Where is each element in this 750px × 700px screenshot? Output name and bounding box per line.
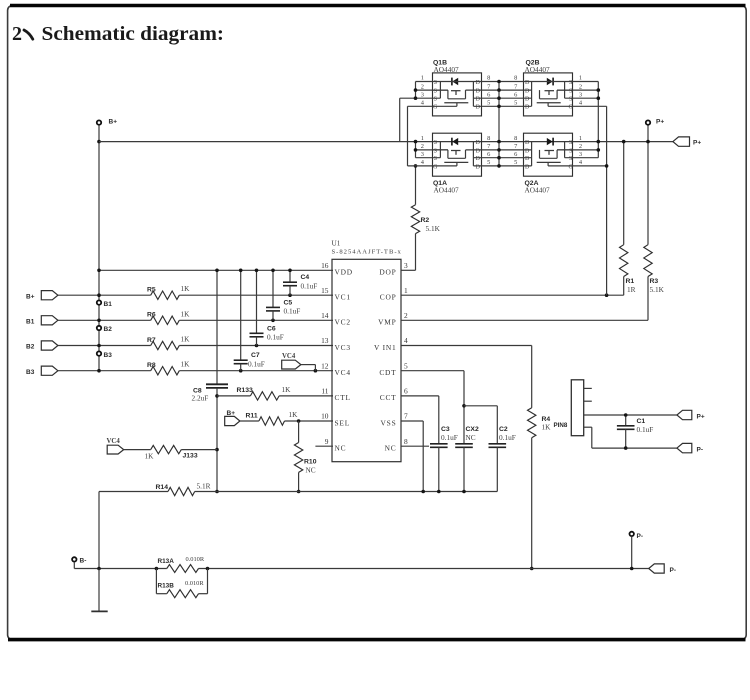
svg-text:S: S [569, 80, 572, 86]
svg-text:0.1uF: 0.1uF [267, 333, 284, 342]
svg-text:S: S [434, 89, 437, 95]
connector flag VC4 left [107, 445, 124, 454]
svg-text:D: D [525, 156, 530, 162]
resistor R13A 0.010R [155, 567, 159, 571]
svg-text:8: 8 [487, 135, 490, 142]
svg-text:P-: P- [697, 446, 704, 453]
wire gate vertical left Q1 [407, 106, 409, 166]
wire PIN8 to P+ flag [584, 414, 677, 416]
svg-text:D: D [476, 89, 481, 95]
connector flag P- bottom [649, 564, 665, 573]
wire P- node drop [631, 536, 633, 568]
capacitor C4 0.1uF [289, 270, 291, 282]
svg-text:R7: R7 [147, 337, 156, 344]
svg-text:R13B: R13B [158, 582, 175, 589]
svg-text:D: D [476, 97, 481, 103]
svg-text:R133: R133 [237, 387, 253, 394]
transistor Q1A AO4407 package [433, 133, 482, 176]
svg-text:D: D [525, 80, 530, 86]
transistor Q2A AO4407 package [524, 133, 573, 176]
svg-text:5.1K: 5.1K [426, 224, 441, 233]
connector flag B3 [41, 366, 58, 375]
node P- bottom [630, 532, 634, 536]
wire left drop to B- row [98, 492, 100, 569]
svg-text:B-: B- [80, 558, 87, 565]
svg-text:11: 11 [321, 387, 328, 396]
capacitor C2 0.1uF [464, 405, 497, 407]
svg-text:B+: B+ [26, 293, 35, 300]
U1 pin 9 NC stub [315, 445, 333, 447]
svg-text:R11: R11 [246, 412, 258, 419]
svg-text:0.1uF: 0.1uF [248, 359, 265, 368]
svg-text:G: G [569, 164, 574, 170]
wire row3 segments top [400, 97, 441, 99]
svg-text:J133: J133 [183, 452, 198, 459]
svg-text:5: 5 [514, 159, 517, 166]
svg-text:VC4: VC4 [107, 438, 121, 445]
svg-text:DOP: DOP [379, 268, 396, 277]
svg-text:S: S [434, 148, 437, 154]
svg-text:B3: B3 [104, 352, 113, 359]
svg-text:1K: 1K [282, 385, 292, 394]
svg-text:3: 3 [421, 151, 424, 158]
svg-text:P-: P- [637, 533, 644, 540]
connector flag B2 [41, 341, 58, 350]
resistor J133 1K row [124, 449, 151, 451]
svg-text:S: S [434, 156, 437, 162]
svg-text:SEL: SEL [335, 418, 351, 427]
svg-text:1K: 1K [181, 360, 191, 369]
resistor R7 1K [58, 345, 151, 347]
svg-text:D: D [525, 164, 530, 170]
resistor R14 5.1R row [99, 491, 168, 493]
wire row3 segments bottom [416, 157, 441, 159]
junction bus-rail [97, 140, 101, 144]
svg-text:B+: B+ [227, 410, 236, 417]
svg-text:P+: P+ [697, 413, 705, 420]
wire B- elbow [73, 562, 75, 569]
svg-text:VC3: VC3 [335, 343, 351, 352]
svg-text:B2: B2 [26, 344, 35, 351]
svg-text:12: 12 [321, 361, 329, 370]
svg-text:1: 1 [421, 75, 424, 82]
node B+ top [97, 120, 101, 124]
svg-text:CCT: CCT [380, 393, 397, 402]
wire right S-tie Q2 [597, 82, 599, 158]
connector flag P+ top right [673, 137, 690, 146]
svg-text:5.1K: 5.1K [650, 285, 665, 294]
IC U1 S-8254AAJFT-TB-x [332, 259, 401, 461]
svg-text:5: 5 [404, 361, 408, 370]
svg-text:C5: C5 [284, 299, 293, 306]
wire VSS pin7 drop [401, 420, 423, 422]
connector flag VC4 to pin 12 [282, 360, 301, 369]
svg-text:S: S [569, 156, 572, 162]
wire row4 gate rows top [408, 105, 457, 107]
svg-text:0.1uF: 0.1uF [499, 433, 516, 442]
svg-text:S: S [569, 97, 572, 103]
svg-text:2: 2 [579, 143, 582, 150]
svg-text:15: 15 [321, 286, 329, 295]
svg-text:B+: B+ [109, 119, 118, 126]
svg-text:S: S [569, 148, 572, 154]
svg-text:R8: R8 [147, 362, 156, 369]
svg-text:G: G [433, 164, 438, 170]
svg-text:10: 10 [321, 412, 329, 421]
svg-text:D: D [525, 148, 530, 154]
svg-text:R13A: R13A [158, 558, 175, 565]
svg-text:P-: P- [670, 567, 677, 574]
ground symbol [98, 569, 100, 612]
capacitor C8 2.2uF [216, 270, 218, 384]
resistor R133 1K pin11 row [217, 395, 250, 397]
wire gate vertical right Q2 [606, 106, 608, 295]
svg-text:2: 2 [404, 311, 408, 320]
svg-text:3: 3 [579, 151, 582, 158]
svg-text:1: 1 [579, 135, 582, 142]
wire jog to rail left [399, 98, 401, 141]
svg-text:S: S [569, 140, 572, 146]
svg-text:G: G [569, 105, 574, 111]
svg-text:8: 8 [514, 135, 517, 142]
svg-text:6: 6 [404, 387, 408, 396]
svg-text:VSS: VSS [381, 418, 397, 427]
resistor R2 5.1K [411, 205, 419, 234]
connector flag B+ [41, 291, 58, 300]
svg-text:C7: C7 [251, 352, 260, 359]
svg-text:D: D [476, 156, 481, 162]
drain bus center [498, 82, 500, 166]
svg-text:5: 5 [514, 100, 517, 107]
svg-text:R6: R6 [147, 312, 156, 319]
svg-text:0.1uF: 0.1uF [284, 307, 301, 316]
svg-text:6: 6 [514, 151, 517, 158]
svg-text:COP: COP [380, 293, 397, 302]
resistor R6 1K [58, 319, 151, 321]
wire row2 segments top [416, 89, 448, 91]
PIN8 stub 1 [584, 387, 592, 389]
capacitor C5 0.1uF [272, 270, 274, 307]
svg-text:S-8254AAJFT-TB-x: S-8254AAJFT-TB-x [332, 249, 402, 256]
capacitor C7 0.1uF [240, 270, 242, 360]
connector flag P+ mid right [677, 410, 692, 419]
wire left S-tie Q1B [415, 82, 417, 99]
wire left bus vertical [98, 125, 100, 371]
svg-text:D: D [476, 148, 481, 154]
svg-text:2.2uF: 2.2uF [192, 394, 209, 403]
svg-text:R14: R14 [156, 484, 169, 491]
resistor R11 1K pin10 row [240, 420, 259, 422]
svg-text:1K: 1K [181, 335, 191, 344]
svg-text:8: 8 [514, 75, 517, 82]
svg-text:VC1: VC1 [335, 293, 351, 302]
svg-text:2: 2 [421, 143, 424, 150]
svg-text:8: 8 [404, 437, 408, 446]
svg-text:C4: C4 [301, 274, 310, 281]
svg-text:6: 6 [487, 151, 490, 158]
svg-text:1K: 1K [145, 452, 155, 461]
svg-text:V IN1: V IN1 [374, 343, 397, 352]
wire DOP pin3 to R2 [401, 269, 416, 271]
svg-text:6: 6 [514, 91, 517, 98]
svg-text:3: 3 [579, 91, 582, 98]
capacitor C6 0.1uF [256, 270, 258, 333]
resistor R1 1R [623, 277, 625, 296]
svg-text:5: 5 [487, 100, 490, 107]
svg-text:0.010R: 0.010R [186, 556, 205, 563]
svg-text:14: 14 [321, 311, 329, 320]
wire VINI pin4 row to R4 [401, 345, 532, 347]
svg-text:VC4: VC4 [335, 368, 351, 377]
resistor R10 NC vertical [298, 421, 300, 443]
svg-text:0.1uF: 0.1uF [301, 281, 318, 290]
U1 pin 8 NC stub [401, 445, 429, 447]
svg-text:3: 3 [421, 91, 424, 98]
resistor R13B 0.010R [155, 569, 157, 594]
wire B-/P- bottom row [74, 568, 648, 570]
PIN8 stub 2 [584, 400, 592, 402]
transistor Q1B AO4407 package [433, 73, 482, 116]
wire CDT pin5 to CX2 [401, 370, 464, 372]
wire PIN8 to P- flag [584, 426, 592, 428]
svg-text:5: 5 [487, 159, 490, 166]
transistor Q2B AO4407 package [524, 73, 573, 116]
wire row2 segments bottom [416, 149, 448, 151]
svg-text:1K: 1K [181, 309, 191, 318]
svg-text:D: D [525, 140, 530, 146]
svg-text:VMP: VMP [378, 318, 396, 327]
wire top row pin1-8 rail [416, 81, 599, 83]
wire COP pin1 row to gates and R1 [401, 294, 624, 296]
svg-text:B1: B1 [26, 318, 35, 325]
resistor R8 1K [58, 370, 151, 372]
node P+ top right [646, 120, 650, 124]
svg-text:D: D [476, 80, 481, 86]
svg-text:C6: C6 [267, 325, 276, 332]
svg-text:S: S [434, 97, 437, 103]
wire CCT pin6 to C3 [401, 395, 439, 397]
svg-text:D: D [476, 164, 481, 170]
svg-text:Schematic diagram:: Schematic diagram: [42, 23, 225, 45]
svg-text:CDT: CDT [379, 368, 396, 377]
svg-text:B2: B2 [104, 326, 113, 333]
svg-text:1: 1 [404, 286, 408, 295]
svg-text:B1: B1 [104, 301, 113, 308]
svg-text:9: 9 [325, 437, 329, 446]
resistor R4 1K [528, 408, 536, 438]
capacitor CX2 NC [455, 443, 473, 445]
svg-text:AO4407: AO4407 [525, 65, 550, 74]
svg-text:NC: NC [306, 465, 316, 474]
svg-text:2: 2 [579, 83, 582, 90]
svg-text:D: D [525, 97, 530, 103]
node B- [72, 557, 76, 561]
svg-text:0.010R: 0.010R [185, 580, 204, 587]
svg-text:4: 4 [404, 336, 408, 345]
resistor R3 5.1K [647, 277, 649, 321]
svg-text:1K: 1K [289, 410, 299, 419]
svg-text:2: 2 [12, 23, 22, 45]
svg-text:S: S [569, 89, 572, 95]
svg-text:G: G [433, 105, 438, 111]
connector PIN8 [571, 380, 583, 436]
capacitor C1 0.1uF [625, 415, 627, 426]
svg-text:1: 1 [579, 75, 582, 82]
svg-text:1K: 1K [181, 284, 191, 293]
svg-text:CTL: CTL [335, 393, 351, 402]
svg-text:16: 16 [321, 261, 329, 270]
svg-text:7: 7 [404, 412, 408, 421]
svg-text:0.1uF: 0.1uF [637, 425, 654, 434]
svg-text:D: D [525, 89, 530, 95]
svg-text:5.1R: 5.1R [197, 482, 211, 491]
svg-text:VC4: VC4 [282, 353, 296, 360]
svg-text:1K: 1K [542, 423, 552, 432]
svg-text:P+: P+ [656, 119, 664, 126]
svg-text:1R: 1R [627, 285, 636, 294]
svg-text:U1: U1 [332, 239, 341, 248]
svg-text:NC: NC [385, 444, 397, 453]
node B2 on bus [97, 326, 101, 330]
svg-text:PIN8: PIN8 [554, 422, 568, 429]
svg-text:AO4407: AO4407 [434, 186, 459, 195]
svg-text:VDD: VDD [335, 268, 353, 277]
wire row4 gate rows bottom [408, 165, 457, 167]
svg-text:B3: B3 [26, 369, 35, 376]
svg-text:6: 6 [487, 91, 490, 98]
wire left S-tie Q1A [415, 142, 417, 158]
connector flag B1 [41, 316, 58, 325]
svg-text:VC2: VC2 [335, 318, 351, 327]
svg-text:1: 1 [421, 135, 424, 142]
capacitor C3 0.1uF [430, 443, 448, 445]
svg-text:8: 8 [487, 75, 490, 82]
svg-text:P+: P+ [693, 140, 701, 147]
connector flag P- mid right [677, 443, 692, 452]
wire VMP pin2 row to R3 [401, 319, 648, 321]
svg-text:NC: NC [335, 444, 347, 453]
svg-text:R5: R5 [147, 287, 156, 294]
connector flag B+ to R11 [225, 416, 240, 425]
svg-text:D: D [525, 105, 530, 111]
wire main B+ rail [99, 141, 673, 143]
svg-text:AO4407: AO4407 [525, 186, 550, 195]
wire VDD row [99, 269, 333, 271]
svg-text:D: D [476, 140, 481, 146]
svg-text:3: 3 [404, 261, 408, 270]
svg-text:R2: R2 [421, 217, 430, 224]
node B1 on bus [97, 300, 101, 304]
svg-text:AO4407: AO4407 [434, 65, 459, 74]
node B3 on bus [97, 351, 101, 355]
svg-text:13: 13 [321, 336, 329, 345]
svg-text:NC: NC [466, 433, 476, 442]
resistor R5 1K [58, 294, 151, 296]
svg-text:S: S [434, 140, 437, 146]
svg-text:S: S [434, 80, 437, 86]
svg-text:2: 2 [421, 83, 424, 90]
svg-text:0.1uF: 0.1uF [441, 433, 458, 442]
svg-text:D: D [476, 105, 481, 111]
